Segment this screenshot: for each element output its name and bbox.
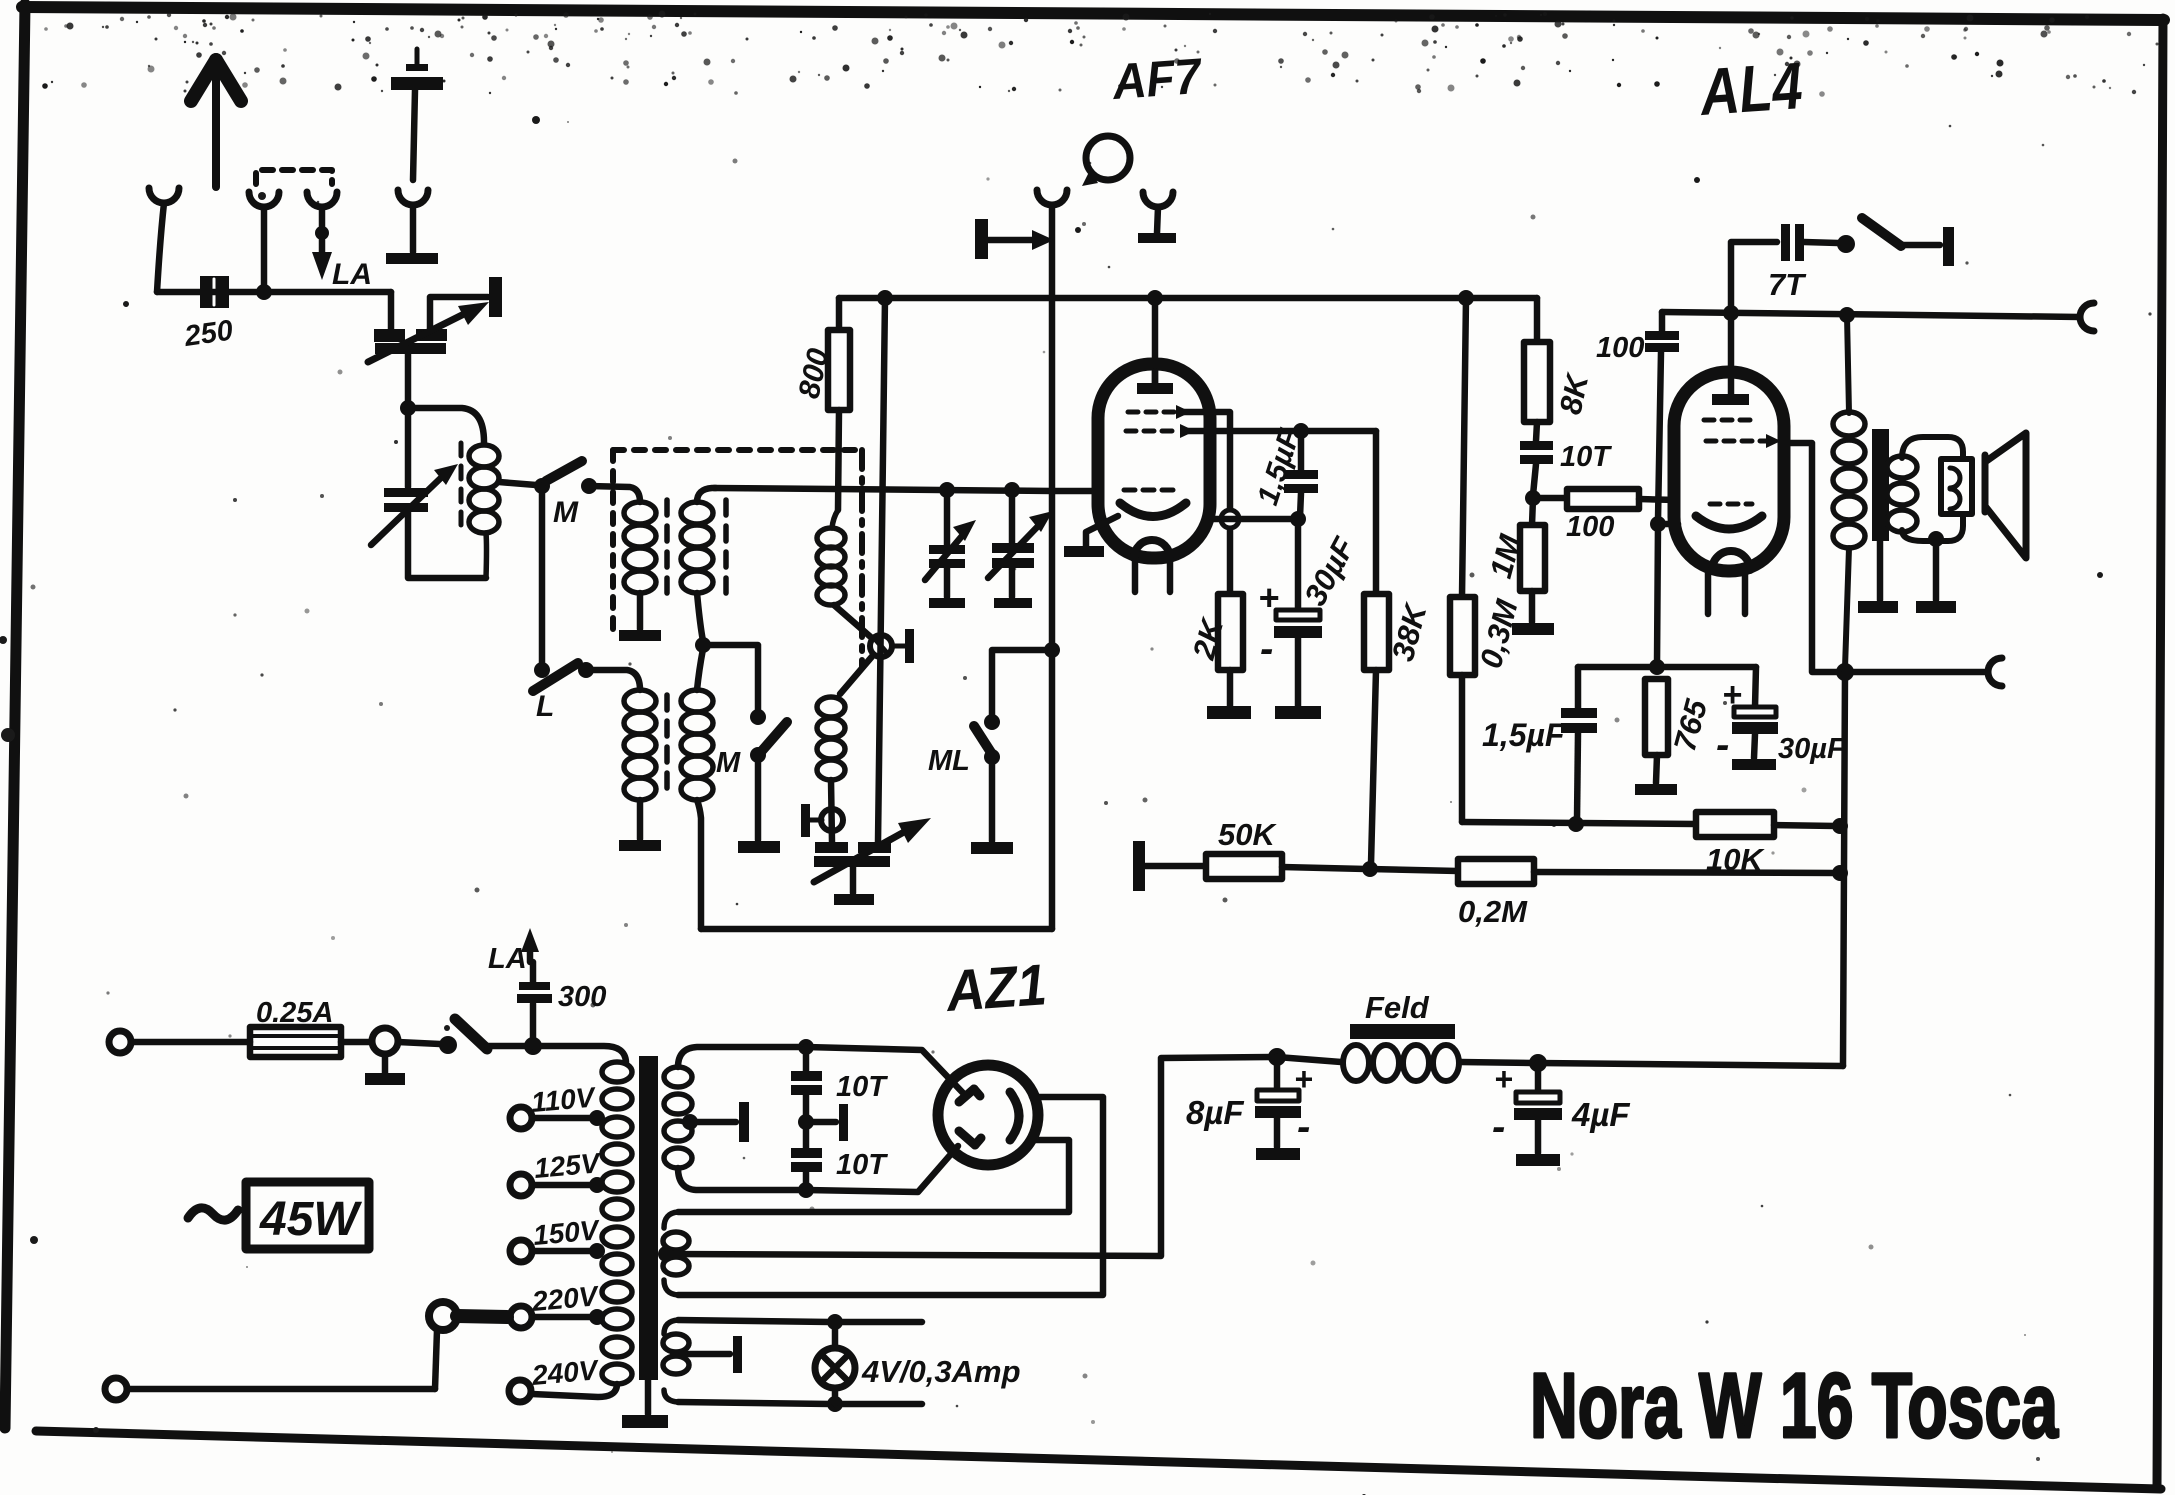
wire trimmer to tank node (405, 354, 412, 404)
AL4 anode plate (1712, 394, 1749, 405)
label ~ mains (188, 1208, 238, 1220)
ground coil5 (619, 840, 661, 851)
AL4 cathode dashes (1710, 502, 1752, 507)
padder trimmer 2 (801, 804, 843, 837)
output transformer core (1858, 429, 1898, 613)
capacitor 10T upper (791, 1047, 822, 1119)
ground coil1 (619, 630, 661, 641)
wire fuse to switch (341, 1039, 372, 1046)
wire coil to padder 1 (834, 605, 881, 694)
border top (22, 7, 2164, 20)
svg-text:30µF: 30µF (1778, 733, 1846, 765)
AF7 cathode arc (1120, 503, 1186, 517)
capacitor 30uF (AF7 cathode) (1274, 519, 1322, 719)
svg-text:AF7: AF7 (1109, 48, 1205, 110)
resistor 0,2M (1458, 859, 1534, 884)
AL4 screen row (1706, 434, 1781, 448)
tap 110V (510, 1107, 605, 1129)
lamp winding top lead (678, 1320, 830, 1322)
pilot lamp 4V/0,3Amp (815, 1322, 855, 1404)
tap 150V (510, 1240, 605, 1262)
wire B+ from CT (666, 1057, 1271, 1256)
fuse 0.25A (250, 1027, 341, 1057)
heater stub bottom (835, 1401, 922, 1408)
node 10K/B+ (1832, 818, 1848, 834)
AF7 cathode left lead to chassis (1064, 516, 1118, 557)
wire node to antenna coil top (408, 408, 484, 442)
capacitor 1,5uF (AL4) (1561, 667, 1597, 820)
svg-text:220V: 220V (530, 1280, 601, 1317)
coil2 bottom lead (697, 593, 703, 641)
wire 0,2M to B+ vertical (1534, 872, 1836, 873)
ground osc tuning cap (834, 894, 874, 905)
coil2 secondary to grid (681, 502, 713, 593)
node 1,5uF bottom (1568, 816, 1584, 832)
node coil2/coil4 (695, 637, 711, 653)
resistor 765 (1635, 679, 1677, 795)
antenna socket 2 (249, 192, 279, 292)
voltage selector link (127, 1302, 507, 1389)
padder trimmer 1 (870, 629, 914, 663)
capacitor 1,5uF (AF7) (1284, 431, 1318, 517)
resistor 100 (grid stopper) (1533, 489, 1676, 509)
node filament CT (658, 1246, 674, 1262)
wire 4uF node to B+ vertical (1538, 1063, 1843, 1066)
svg-text:ML: ML (928, 745, 970, 777)
capacitor 100 (anode bypass) (1645, 312, 1679, 520)
resistor 38K (1364, 431, 1389, 864)
AL4 bottom pinch (1712, 551, 1750, 570)
resistor 800 (828, 298, 850, 510)
AL4 grid row 1 (1704, 418, 1750, 423)
AVC bar terminal with arrow (975, 219, 1054, 259)
svg-text:Feld: Feld (1365, 990, 1430, 1025)
svg-text:7T: 7T (1768, 267, 1807, 302)
AZ1 filament lead bottom (678, 1140, 1069, 1212)
border bottom (36, 1431, 2161, 1489)
wire node to speaker terminal (1845, 669, 1984, 676)
antenna coil core dashes (459, 443, 464, 528)
wire to 50K (1145, 863, 1206, 870)
svg-text:-: - (1260, 627, 1273, 671)
shield dash-dot box (613, 450, 862, 668)
svg-text:110V: 110V (530, 1081, 598, 1118)
svg-text:10K: 10K (1706, 842, 1765, 877)
antenna socket 3 with LA arrow (307, 192, 337, 280)
tube AL4 envelope (1674, 372, 1784, 571)
tap 240V (509, 1380, 531, 1402)
oscillator coil lower (817, 697, 845, 780)
svg-text:240V: 240V (530, 1354, 601, 1391)
HT centre tap chassis (682, 1102, 749, 1142)
wire down to antenna trimmer (388, 292, 395, 330)
svg-text:LA: LA (488, 943, 527, 975)
node cathode network (1649, 659, 1665, 675)
svg-text:-: - (1297, 1105, 1310, 1149)
AF7 grid row 1 (1128, 405, 1191, 419)
45W box (246, 1182, 369, 1249)
node 10T bottom (798, 1182, 814, 1198)
wire 50K to node (1282, 867, 1366, 869)
coil5 ground lead (637, 800, 644, 839)
svg-text:10T: 10T (1560, 441, 1612, 473)
node voice coil ground (1928, 531, 1944, 547)
svg-text:+: + (1722, 676, 1742, 714)
svg-text:45W: 45W (259, 1193, 362, 1246)
svg-text:AZ1: AZ1 (943, 952, 1049, 1024)
antenna trimmer capacitor (368, 277, 502, 362)
coil4 LW secondary (681, 690, 713, 800)
wire between switch pivots (539, 486, 546, 670)
node grid2/1.5uF (1293, 423, 1309, 439)
AL4 cathode arc (1696, 516, 1762, 529)
AF7 grid row 2 (1126, 424, 1195, 438)
svg-text:100: 100 (1596, 332, 1644, 364)
svg-text:Nora W 16 Tosca: Nora W 16 Tosca (1530, 1355, 2059, 1457)
wire M contact to coil1 (589, 486, 640, 502)
node 38K/AVC (1362, 861, 1378, 877)
rectifier filament winding (663, 1212, 689, 1295)
wire grid vertical (top cap line) (1049, 206, 1056, 929)
coil4 leads (697, 649, 703, 690)
svg-text:1,5µF: 1,5µF (1482, 717, 1566, 753)
tap 220V (510, 1306, 605, 1328)
bar terminal 50K (1133, 841, 1145, 891)
node lamp top (827, 1314, 843, 1330)
power transformer primary winding (602, 1062, 632, 1384)
primary bottom lead to 240V (532, 1384, 617, 1397)
switch M (wave band) (534, 461, 597, 494)
node tank top (400, 400, 416, 416)
pickup socket (1037, 190, 1067, 205)
node AF7 anode on rail (1147, 290, 1163, 306)
svg-text:AL4: AL4 (1696, 48, 1805, 129)
svg-text:50K: 50K (1218, 817, 1277, 852)
wire coil tap to switch M (499, 482, 536, 485)
AF7 bottom pinch (1134, 540, 1170, 558)
heater stub top (835, 1319, 922, 1326)
resistor 8K (1524, 298, 1550, 441)
svg-text:250: 250 (182, 315, 235, 354)
capacitor 300 (517, 962, 552, 1046)
svg-text:100: 100 (1566, 511, 1614, 543)
wire to ML switch (992, 650, 1052, 716)
svg-text:-: - (1492, 1105, 1505, 1149)
capacitor 8uF (1255, 1057, 1301, 1160)
core dashes between coil1/coil2 (664, 500, 670, 600)
svg-text:10T: 10T (836, 1071, 888, 1103)
wire osc feedback vertical (878, 298, 885, 842)
speaker cone (1985, 433, 2026, 558)
node cathode/30uF (1290, 511, 1306, 527)
svg-text:-: - (1716, 723, 1729, 767)
grid trimmer 2 (988, 482, 1053, 608)
mains terminal 2 (105, 1378, 127, 1400)
switch M2 (MW shorting) (750, 709, 787, 840)
svg-text:+: + (1494, 1061, 1513, 1097)
wire B+ vertical (1843, 672, 1845, 1066)
field coil Feld (1277, 1024, 1532, 1081)
speaker terminal hook bottom (1988, 658, 2002, 686)
switch ML (974, 714, 1000, 841)
transformer core (622, 1056, 668, 1428)
node AL4 grid (1525, 490, 1541, 506)
resistor 10K (1696, 812, 1774, 837)
svg-text:0,2M: 0,2M (1458, 894, 1528, 929)
grid cap circle (1082, 136, 1130, 186)
coil1 ground lead (637, 593, 644, 629)
svg-text:10T: 10T (836, 1149, 888, 1181)
antenna socket 1 (149, 188, 179, 292)
output transformer secondary (1887, 456, 1917, 532)
svg-text:M: M (716, 747, 741, 779)
capacitor 10T lower (791, 1122, 822, 1190)
resistor 50K (1206, 854, 1282, 879)
chassis socket (1138, 192, 1176, 243)
wire LW bottom rail (701, 926, 1052, 933)
node 10T mid chassis (798, 1104, 848, 1141)
voice coil loop frame (1902, 437, 1963, 541)
fuse/arrester block 250 (200, 276, 229, 308)
antenna arrow symbol (191, 60, 241, 187)
tube AZ1 (rectifier) (938, 1065, 1038, 1165)
lamp winding bottom lead (678, 1402, 830, 1404)
HT top lead (678, 1047, 800, 1067)
node 4uF (1529, 1054, 1547, 1072)
LA arrow (to antenna bus) (521, 928, 539, 962)
node 8uF (1268, 1048, 1286, 1066)
wire coil to padder 2 (831, 780, 832, 842)
node antenna bus / socket2 (256, 284, 272, 300)
variable tuning capacitor (antenna section) (371, 408, 486, 578)
wire B+ rail right (1662, 312, 2080, 317)
ground switch M2 (738, 841, 780, 853)
wire antenna bus (157, 289, 391, 296)
mains switch (365, 1019, 528, 1085)
capacitor 4uF (1514, 1063, 1562, 1166)
svg-text:+: + (1294, 1061, 1313, 1097)
wire to fuse (131, 1039, 250, 1046)
core dashes coil4/coil5 (664, 695, 670, 795)
wire cathode rail (1578, 664, 1756, 671)
svg-text:150V: 150V (532, 1214, 602, 1251)
node B+/osc feedback (877, 290, 893, 306)
wire signal grid (row2) (1186, 428, 1376, 435)
coil1 MW primary (624, 502, 656, 593)
node 0,2M/B+ (1832, 865, 1848, 881)
svg-text:300: 300 (558, 981, 606, 1013)
wire bias rail (1462, 822, 1696, 824)
dashed link bracket between sockets 2-3 (256, 170, 332, 184)
node lamp bottom (827, 1396, 843, 1412)
wire B+ rail (839, 295, 1537, 302)
svg-text:4µF: 4µF (1571, 1096, 1630, 1133)
capacitor 7T with tone switch (1731, 218, 1954, 313)
wire to transformer primary top (533, 1046, 626, 1062)
AF7 cathode dashes (1124, 488, 1180, 493)
svg-text:M: M (553, 496, 579, 529)
svg-text:8µF: 8µF (1186, 1094, 1244, 1131)
output transformer primary (1833, 315, 1865, 668)
grid trimmer 1 (925, 482, 976, 608)
wire to AZ1 anode 1 (806, 1047, 964, 1094)
capacitor 10T (coupling) (1520, 441, 1553, 495)
wire cathode line (1206, 516, 1302, 523)
wire node to switch M2 (703, 645, 758, 712)
svg-text:125V: 125V (533, 1147, 603, 1184)
wire screen to node (1784, 443, 1838, 672)
coil2 top lead to grid rail (697, 488, 716, 502)
lamp winding chassis (682, 1336, 742, 1373)
ground switch ML (971, 842, 1013, 854)
node AL4 cathode (1650, 516, 1666, 532)
wire AL4 anode (1728, 313, 1735, 394)
wire grid stub into AF7 (1052, 488, 1097, 495)
svg-text:LA: LA (332, 258, 372, 291)
node switch / 300pF (524, 1037, 542, 1055)
node ML branch (1044, 642, 1060, 658)
voice coil (1941, 459, 1972, 514)
wire grid rail (714, 488, 1052, 491)
HT bottom lead (678, 1168, 800, 1190)
capacitor 30uF (AL4 cathode) (1732, 667, 1778, 770)
svg-text:4V/0,3Amp: 4V/0,3Amp (861, 1354, 1021, 1389)
speaker terminal hook top (2080, 303, 2094, 331)
node AL4 anode rail (1723, 305, 1739, 321)
AZ1 filament lead top (678, 1097, 1103, 1295)
resistor 2K (1207, 594, 1251, 719)
lamp winding (663, 1320, 689, 1402)
oscillator coil upper (817, 510, 845, 605)
coil5 top lead from L switch (586, 670, 640, 690)
border right (2157, 18, 2163, 1487)
resistor 0,3M (1450, 290, 1475, 822)
svg-text:+: + (1258, 577, 1279, 618)
wire cathode down (1657, 524, 1658, 663)
node screen/primary/output (1836, 663, 1854, 681)
ground voice coil (1916, 539, 1956, 613)
wire osc grid (row1) to 2K (1182, 412, 1230, 592)
svg-text:L: L (536, 690, 554, 723)
svg-text:0.25A: 0.25A (256, 997, 333, 1029)
AF7 base pins (1132, 558, 1139, 592)
AL4 base pins (1705, 571, 1712, 614)
tube AF7 envelope (1098, 364, 1210, 558)
AF7 anode plate (1137, 371, 1173, 394)
antenna coil (469, 445, 499, 578)
HT secondary winding (664, 1067, 692, 1168)
resistor 1M (1512, 498, 1554, 635)
variable tuning capacitor (oscillator section) (814, 818, 931, 893)
border left (5, 4, 25, 1428)
wire cathode stub (1658, 521, 1678, 528)
wire to AZ1 anode 2 (806, 1146, 958, 1192)
switch L (wave band) (533, 662, 594, 691)
coil5 LW primary (624, 690, 656, 800)
mains terminal 1 (109, 1031, 131, 1053)
wire node to 0,2M (1370, 869, 1458, 871)
wire anode (1152, 298, 1159, 385)
tap 125V (510, 1174, 605, 1196)
pin circle marker (1221, 510, 1239, 528)
antenna socket 4 with series trimmer cap above (386, 49, 443, 264)
node 10T top (798, 1039, 814, 1055)
node primary top rail (1839, 307, 1855, 323)
wire 10K to B+ vertical (1774, 825, 1836, 826)
